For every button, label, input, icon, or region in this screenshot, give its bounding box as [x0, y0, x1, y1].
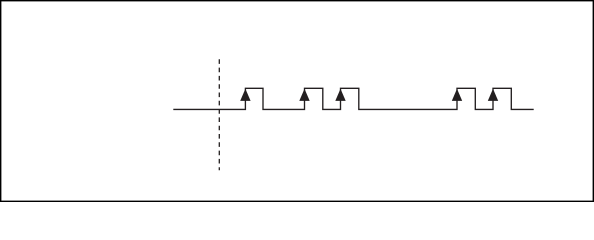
arrow edge 2	[299, 89, 309, 101]
wire pulse waveform	[173, 88, 533, 109]
node t0 dashed reference line	[218, 59, 220, 170]
arrow edge 1	[240, 89, 250, 101]
arrow edge 3	[335, 89, 345, 101]
arrow edge 5	[488, 89, 498, 101]
arrow edge 4	[452, 89, 462, 101]
